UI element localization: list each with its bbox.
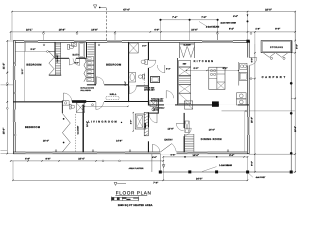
closet bedroom2 shelf boxes <box>87 57 94 82</box>
svg-text:4x4 POST: 4x4 POST <box>256 176 266 179</box>
title floor plan <box>115 190 151 195</box>
annotation top right <box>220 15 254 44</box>
attic access <box>106 96 119 99</box>
svg-text:5′-4″: 5′-4″ <box>166 67 171 70</box>
windows left wall <box>12 66 14 80</box>
svg-text:4′-6″: 4′-6″ <box>74 62 78 65</box>
svg-text:16′-8″: 16′-8″ <box>59 28 66 31</box>
fireplace <box>130 112 149 136</box>
svg-text:11′-2″: 11′-2″ <box>21 69 24 75</box>
svg-text:DRYER ABV: DRYER ABV <box>144 89 155 92</box>
svg-text:2x10 HDR OVER: 2x10 HDR OVER <box>220 21 236 24</box>
svg-text:24′-0″: 24′-0″ <box>196 177 203 180</box>
svg-text:19′-8″: 19′-8″ <box>294 126 297 132</box>
exterior wall top <box>13 41 249 43</box>
svg-text:11′-2″: 11′-2″ <box>3 62 6 69</box>
closet bedroom2 accordion front <box>84 57 86 82</box>
furnace box <box>184 101 192 109</box>
svg-text:1865 SQ FT HEATED AREA: 1865 SQ FT HEATED AREA <box>118 204 153 207</box>
svg-text:L I V I N G R O O M: L I V I N G R O O M <box>88 121 117 124</box>
carport front beam <box>160 171 291 173</box>
svg-text:12′-8″: 12′-8″ <box>167 128 174 131</box>
corner post top right <box>246 40 249 43</box>
svg-text:CLOSET: CLOSET <box>77 125 80 134</box>
svg-text:8′-6″: 8′-6″ <box>46 158 52 161</box>
svg-text:ATTIC ACCESS: ATTIC ACCESS <box>151 100 164 103</box>
exterior wall bottom <box>13 152 248 154</box>
bath1 <box>68 43 85 58</box>
dim line bottom near left <box>10 156 164 162</box>
dining buffet lines <box>222 110 247 112</box>
svg-text:2-2x8 BEAM: 2-2x8 BEAM <box>206 26 219 29</box>
dim line carport inner <box>249 44 256 173</box>
dim line top segments <box>10 28 296 40</box>
svg-text:ENTRY: ENTRY <box>164 138 173 141</box>
posts <box>159 171 162 174</box>
svg-text:14′-8″: 14′-8″ <box>91 28 98 31</box>
svg-text:STORAGE: STORAGE <box>270 46 283 49</box>
svg-text:5′-0″: 5′-0″ <box>296 44 299 49</box>
svg-text:BATH: BATH <box>72 53 79 56</box>
svg-text:9′-6″: 9′-6″ <box>31 48 37 51</box>
svg-text:7′-6″: 7′-6″ <box>201 16 207 19</box>
closet bedroom2 hatch <box>87 43 94 55</box>
svg-text:8′-0″: 8′-0″ <box>194 67 200 70</box>
dim line right <box>249 12 299 173</box>
svg-text:CLOSET: CLOSET <box>56 54 59 63</box>
exterior wall left <box>13 41 15 154</box>
svg-text:HALL: HALL <box>110 93 117 96</box>
svg-text:DINING ROOM: DINING ROOM <box>201 138 222 141</box>
kitchen island <box>209 67 225 89</box>
svg-text:AREA PLASTER: AREA PLASTER <box>129 167 144 170</box>
svg-text:FIREPL: FIREPL <box>144 122 147 128</box>
storage room <box>261 41 292 60</box>
dim line overall top <box>11 8 296 40</box>
dim line bottom near right <box>163 154 249 158</box>
svg-text:FLOOR PLAN: FLOOR PLAN <box>116 190 152 195</box>
section cut line top <box>93 5 106 40</box>
entry sw arc <box>151 144 153 152</box>
svg-text:7′-4″: 7′-4″ <box>172 16 178 19</box>
scale bar <box>112 196 139 201</box>
svg-text:BEDROOM: BEDROOM <box>26 63 41 66</box>
svg-text:CLOSET: CLOSET <box>183 44 191 47</box>
svg-text:47′-4″: 47′-4″ <box>123 8 131 11</box>
svg-text:10′-6″: 10′-6″ <box>191 28 198 31</box>
porch datum marker <box>162 165 165 168</box>
carport right beam <box>290 41 292 172</box>
svg-text:1-2x8 BEAM: 1-2x8 BEAM <box>219 164 232 167</box>
svg-text:FULL WIDTH: FULL WIDTH <box>81 89 92 92</box>
svg-text:BEDROOM: BEDROOM <box>25 126 40 129</box>
datum marker bottom <box>114 182 126 185</box>
svg-text:ABOVE: ABOVE <box>153 109 160 112</box>
svg-text:8′-2″: 8′-2″ <box>229 28 235 31</box>
dim line bottom overall <box>12 157 248 185</box>
svg-text:16′-0″: 16′-0″ <box>265 8 273 11</box>
svg-text:14′-0″: 14′-0″ <box>209 128 216 131</box>
svg-text:8′-0″: 8′-0″ <box>229 154 235 157</box>
kitchen closet top <box>179 42 181 58</box>
svg-text:4′-0″: 4′-0″ <box>142 44 146 47</box>
openings <box>24 40 38 43</box>
svg-text:14′-8″: 14′-8″ <box>116 139 123 142</box>
closet bedroom1 accordion <box>49 52 54 75</box>
washer dryer <box>237 93 247 105</box>
coat closet entry <box>184 134 186 152</box>
interior dims <box>15 42 239 142</box>
door arcs <box>63 58 257 152</box>
svg-text:4′-8″: 4′-8″ <box>25 158 31 161</box>
hall-living door <box>92 102 104 110</box>
bath2 <box>129 43 148 85</box>
svg-text:4′-0″: 4′-0″ <box>233 15 239 18</box>
svg-text:8′-0″: 8′-0″ <box>250 161 253 166</box>
svg-text:9′-0″: 9′-0″ <box>250 58 253 63</box>
stacked washer corridor <box>144 76 159 91</box>
interior walls horizontal <box>55 58 86 59</box>
windows top wall <box>24 39 38 41</box>
svg-text:C A R P O R T: C A R P O R T <box>262 76 286 79</box>
porch lines <box>151 154 153 172</box>
master closet rod <box>74 114 76 152</box>
kitchen counter right <box>239 62 248 86</box>
svg-text:16′-1″: 16′-1″ <box>26 28 33 31</box>
svg-text:3′-0″: 3′-0″ <box>130 120 133 124</box>
svg-text:8′-0″: 8′-0″ <box>124 81 127 85</box>
windows bottom wall <box>26 151 53 153</box>
master bath <box>62 101 84 113</box>
kitchen appliance column <box>179 60 191 103</box>
outlet symbols <box>14 44 247 151</box>
master closet accordion <box>62 114 70 152</box>
svg-text:16′-4″: 16′-4″ <box>250 116 253 123</box>
svg-text:BEDROOM: BEDROOM <box>106 63 121 66</box>
svg-text:16′-4″: 16′-4″ <box>78 158 85 161</box>
svg-text:4′-0″: 4′-0″ <box>152 156 157 159</box>
dim line beam top <box>159 16 219 40</box>
svg-text:1′-6″: 1′-6″ <box>255 28 260 31</box>
svg-text:K I T C H E N: K I T C H E N <box>194 60 214 63</box>
closet bedroom1 hatch <box>54 42 56 75</box>
powder room <box>150 100 157 106</box>
svg-text:16′-0″: 16′-0″ <box>43 140 50 143</box>
svg-text:14′-0″: 14′-0″ <box>193 154 200 157</box>
exterior wall right <box>247 41 249 154</box>
water heater <box>212 101 219 106</box>
chase box <box>185 121 189 133</box>
dim line left <box>1 40 14 154</box>
window dining right wall <box>246 117 248 135</box>
svg-text:15′-0″: 15′-0″ <box>3 127 6 134</box>
interior walls vertical <box>54 42 57 59</box>
